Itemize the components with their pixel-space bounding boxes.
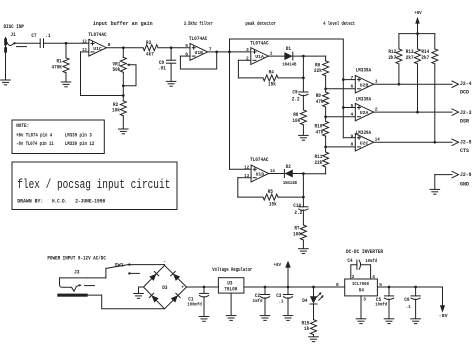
svg-text:+: + (181, 285, 184, 290)
svg-text:1N414B: 1N414B (282, 62, 296, 68)
svg-text:1N414B: 1N414B (283, 180, 297, 186)
wire U1B output (208, 51, 251, 53)
ground for U3 (226, 316, 236, 321)
ground for C6 (411, 319, 421, 324)
ground for R7 (299, 249, 309, 254)
wire signal to U1D pin12 (230, 168, 252, 170)
op-amp U1C TL074AC (82, 32, 111, 56)
node junction signal to U2A pin5 (342, 106, 355, 109)
svg-text:U1C: U1C (93, 46, 102, 52)
svg-text:C7: C7 (31, 33, 36, 39)
svg-text:CTS: CTS (460, 148, 469, 154)
svg-text:J2-4: J2-4 (460, 81, 472, 87)
svg-text:6: 6 (351, 84, 354, 90)
ground for R15 (309, 337, 319, 342)
svg-text:U1D: U1D (256, 172, 265, 178)
svg-text:.01: .01 (158, 66, 166, 72)
power +8V symbol (399, 10, 435, 35)
ground for C2 (260, 316, 270, 321)
svg-text:22k: 22k (314, 68, 322, 74)
ground for R2 (119, 129, 129, 134)
svg-text:2k7: 2k7 (406, 55, 414, 61)
svg-text:DRAWN BY:: DRAWN BY: (17, 198, 43, 204)
wire U3 ground (230, 293, 232, 315)
wire U1D feedback (238, 178, 263, 197)
resistor R8 22k (314, 56, 329, 92)
svg-text:-8v TL074 pin 11: -8v TL074 pin 11 (16, 141, 54, 147)
svg-text:2-JUNE-1998: 2-JUNE-1998 (75, 198, 105, 204)
resistor R7 100 (293, 225, 306, 249)
svg-text:LM339 pin 3: LM339 pin 3 (65, 132, 92, 138)
resistor R5 15k (263, 189, 303, 207)
text DC-DC INVERTER label (346, 249, 384, 255)
node junction R10/R11 to pin8 (324, 146, 355, 149)
svg-text:2k7: 2k7 (421, 55, 429, 61)
power -8V symbol (439, 287, 448, 319)
svg-text:12: 12 (82, 39, 87, 45)
svg-text:NOTE:: NOTE: (16, 123, 29, 129)
wire C7 to U1C pin 12 (44, 42, 89, 44)
svg-text:.1: .1 (406, 304, 411, 310)
node junction R3/C8 (170, 46, 173, 49)
ground for J1 (1, 80, 11, 85)
ground for C8 (166, 81, 176, 86)
svg-text:J1: J1 (11, 32, 16, 38)
node junction C6 (414, 286, 417, 289)
capacitor C1 100mfd (187, 287, 208, 316)
ground for J2-6 (430, 189, 440, 194)
svg-text:+8V: +8V (414, 10, 422, 16)
svg-text:POWER INPUT 9-12V AC/DC: POWER INPUT 9-12V AC/DC (47, 256, 106, 262)
svg-text:3: 3 (363, 296, 366, 302)
svg-text:ICL7660: ICL7660 (352, 281, 369, 287)
svg-text:DISC INP: DISC INP (4, 24, 25, 30)
svg-text:GND: GND (460, 181, 469, 187)
svg-text:1mfd: 1mfd (253, 298, 263, 304)
svg-text:22k: 22k (315, 160, 323, 166)
connector J2-5 CTS (452, 139, 472, 154)
svg-text:4k7: 4k7 (146, 52, 154, 58)
node junction U1C out/VR1 (122, 46, 125, 49)
resistor R6 100 (292, 110, 306, 135)
svg-text:TL074AC: TL074AC (189, 36, 208, 42)
svg-text:3: 3 (246, 47, 249, 53)
svg-text:8: 8 (336, 282, 339, 288)
resistor R13 2k7 (406, 34, 421, 113)
svg-text:7: 7 (209, 46, 212, 52)
wire U1A feedback to R4 (238, 60, 263, 78)
ground for C1 (199, 317, 209, 322)
svg-text:peak detector: peak detector (245, 21, 276, 27)
bridge diode bottom-right (171, 293, 180, 302)
svg-text:R4: R4 (269, 69, 274, 75)
connector J2-3 DSR (452, 109, 472, 125)
capacitor C2 1mfd (253, 287, 270, 315)
svg-text:U2C: U2C (360, 140, 369, 146)
node junction R4 tap (302, 56, 305, 92)
inverter U4 ICL7660 (336, 279, 382, 302)
svg-text:H.C.D.: H.C.D. (52, 198, 67, 204)
wire signal to U2C pin9 (343, 137, 355, 139)
diode D2 1N414B (283, 164, 304, 186)
wire U4 ground (360, 296, 362, 319)
svg-text:4: 4 (351, 112, 354, 118)
connector J1 phone jack (4, 32, 26, 80)
svg-text:DSR: DSR (460, 119, 469, 125)
diode D1 1N414B (282, 46, 325, 68)
wire U2C output CTS (374, 141, 452, 143)
node junction C5 (388, 286, 391, 289)
svg-text:U1A: U1A (255, 54, 264, 60)
svg-text:10mfd: 10mfd (375, 301, 387, 307)
svg-text:U4: U4 (359, 288, 364, 294)
svg-text:D1: D1 (286, 46, 291, 52)
node junction D1 out (302, 55, 305, 58)
svg-text:D2: D2 (286, 164, 291, 170)
svg-text:J3: J3 (74, 270, 79, 276)
svg-text:C3: C3 (276, 293, 281, 299)
resistor R12 2k7 (388, 34, 402, 85)
text section title peak detector (245, 21, 276, 27)
wire jack sleeve to bridge bottom (88, 295, 165, 309)
connector J3 power jack (57, 270, 94, 297)
connector J2-6 GND (435, 171, 472, 189)
ground for R6 (299, 135, 309, 140)
svg-text:10k: 10k (112, 107, 120, 113)
svg-text:J2-5: J2-5 (460, 140, 472, 146)
svg-text:DCD: DCD (460, 89, 469, 95)
op-amp U1D TL074AC (244, 157, 275, 182)
switch SW1 (106, 262, 139, 274)
svg-text:8: 8 (108, 42, 111, 48)
text section title 4 level detect (323, 21, 355, 27)
node junction R14 on CTS (433, 141, 436, 144)
svg-text:50k: 50k (113, 67, 121, 73)
op-amp U1B TL074AC (185, 36, 212, 60)
regulator U3 78L08 (218, 278, 244, 293)
wire U1A output (268, 55, 284, 57)
svg-text:J2-6: J2-6 (460, 172, 472, 178)
wire U1C feedback pin 13 (81, 52, 124, 96)
svg-text:15k: 15k (268, 81, 276, 87)
node junction D2 out (302, 172, 305, 207)
wire jack to C7 (17, 42, 41, 44)
ground for R1 (61, 82, 71, 87)
trimpot VR1 50k (113, 48, 137, 86)
wire switch to bridge top (131, 264, 165, 267)
capacitor C10 2.2 (293, 203, 308, 225)
svg-text:LM339A: LM339A (356, 68, 372, 74)
node junction signal to U2B pin7 (342, 78, 355, 81)
capacitor C3 .1 (276, 287, 292, 315)
comparator U2B LM339A (351, 68, 378, 93)
ground for C3 (283, 316, 293, 321)
svg-text:U1B: U1B (195, 50, 204, 56)
node junction R12 on DCD (398, 83, 401, 86)
svg-text:TL074AC: TL074AC (250, 157, 269, 163)
svg-text:TL074AC: TL074AC (88, 32, 107, 38)
wire U3 output rail (244, 286, 345, 288)
node junction R8/R9 to pin6 (324, 87, 355, 90)
node junction R5 tap (302, 196, 305, 199)
resistor R3 4k7 (143, 40, 190, 57)
text Voltage Regulator label (212, 267, 252, 273)
svg-text:C6: C6 (404, 297, 409, 303)
svg-text:LM339A: LM339A (356, 97, 372, 103)
svg-text:2k7: 2k7 (388, 55, 396, 61)
bridge diode bottom-left (149, 293, 158, 302)
svg-text:100: 100 (292, 118, 300, 124)
svg-text:8: 8 (351, 142, 354, 148)
node junction U1B out feedback (215, 51, 218, 54)
comparator U2C LM339A (351, 130, 380, 151)
resistor R11 22k (315, 152, 329, 174)
svg-text:3.5khz filter: 3.5khz filter (184, 21, 213, 27)
svg-text:2.2: 2.2 (294, 210, 302, 216)
svg-text:LM339 pin 12: LM339 pin 12 (65, 141, 95, 147)
svg-text:.1: .1 (45, 33, 50, 39)
wire ladder bottom to D2 node (303, 173, 325, 175)
svg-text:C4: C4 (347, 258, 352, 264)
svg-text:100: 100 (293, 231, 301, 237)
capacitor C9 2.2 (292, 90, 308, 110)
connector J2-4 DCD (452, 81, 472, 96)
svg-text:470K: 470K (52, 64, 62, 70)
wire bridge to regulator (187, 286, 219, 288)
note box (12, 120, 104, 154)
svg-text:-: - (163, 260, 166, 265)
resistor R10 47k (315, 121, 329, 152)
svg-text:D3: D3 (162, 285, 167, 291)
capacitor C7 .1 (31, 33, 50, 47)
svg-text:D4: D4 (302, 298, 307, 304)
svg-text:TL074AC: TL074AC (250, 40, 269, 46)
resistor R14 2k7 (421, 34, 437, 143)
ground for bridge (134, 287, 144, 298)
wire U1C output (106, 47, 143, 49)
svg-text:9: 9 (351, 133, 354, 139)
LED D4 (302, 287, 323, 320)
bridge rectifier D3 (144, 260, 187, 309)
power +8V tap (274, 261, 291, 287)
svg-text:input buffer an gain: input buffer an gain (93, 21, 153, 27)
svg-text:5: 5 (351, 103, 354, 109)
wire U2B output DCD (374, 83, 452, 85)
node junction C1 (203, 286, 206, 289)
svg-text:78L08: 78L08 (224, 286, 237, 292)
resistor R4 15k (263, 69, 303, 87)
svg-text:J2-3: J2-3 (460, 110, 472, 116)
node junction C7/R1 (65, 42, 68, 45)
svg-text:Voltage Regulator: Voltage Regulator (212, 267, 252, 273)
wire U4 output (377, 286, 442, 288)
node junction C2 (264, 286, 267, 289)
node junction signal tap (228, 51, 231, 54)
wire U1D output (269, 173, 285, 175)
text DISC INP label (4, 24, 25, 30)
node junction VR1 bottom (122, 84, 125, 87)
wire U2A output DSR (374, 111, 452, 113)
resistor R9 47k (316, 92, 329, 121)
text POWER INPUT label (47, 256, 106, 262)
svg-text:15k: 15k (269, 201, 277, 207)
svg-text:1k: 1k (304, 326, 309, 332)
svg-text:+8V: +8V (274, 262, 282, 268)
svg-text:U2A: U2A (360, 110, 369, 116)
ground for C5 (384, 319, 394, 324)
resistor R1 470K (52, 43, 70, 82)
ground for U4 (356, 319, 366, 324)
text section title 3.5khz filter (184, 21, 213, 27)
svg-text:10mfd: 10mfd (365, 258, 377, 264)
resistor R15 1k (302, 320, 317, 337)
title box (12, 162, 177, 210)
bridge diode top-right (171, 272, 180, 281)
node junction R13 on DSR (416, 111, 419, 114)
svg-text:U2B: U2B (360, 82, 369, 88)
svg-text:7: 7 (351, 75, 354, 81)
svg-text:2.2: 2.2 (292, 97, 300, 103)
svg-text:flex / pocsag input circuit: flex / pocsag input circuit (17, 177, 170, 192)
svg-text:-8V: -8V (439, 313, 448, 319)
svg-text:C9: C9 (292, 90, 297, 96)
node junction C3 (287, 286, 290, 289)
capacitor C4 10mfd (347, 258, 377, 280)
svg-text:DC-DC INVERTER: DC-DC INVERTER (346, 249, 384, 255)
svg-text:47k: 47k (316, 99, 324, 105)
node junction D4 (312, 286, 315, 289)
comparator U2A LM339A (351, 97, 378, 121)
wire jack tip to switch (87, 268, 106, 278)
wire U1B feedback (180, 52, 216, 69)
op-amp U1A TL074AC (246, 40, 273, 64)
capacitor C8 .01 (158, 48, 176, 81)
svg-text:5: 5 (185, 43, 188, 49)
svg-text:+8v TL074 pin 4: +8v TL074 pin 4 (16, 132, 52, 138)
wire signal over peak detector (230, 39, 344, 169)
node junction R9/R10 to pin4 (324, 115, 355, 118)
resistor R2 10k (112, 101, 126, 129)
svg-text:.1: .1 (279, 298, 284, 304)
node junction feedback/R2 (122, 86, 125, 101)
capacitor C5 10mfd (375, 287, 393, 319)
capacitor C6 .1 (404, 287, 420, 319)
bridge diode top-left (149, 272, 158, 281)
text section title input buffer (93, 21, 153, 27)
svg-text:C10: C10 (293, 203, 301, 209)
svg-text:4 level detect: 4 level detect (323, 21, 355, 27)
svg-text:100mfd: 100mfd (187, 301, 202, 307)
